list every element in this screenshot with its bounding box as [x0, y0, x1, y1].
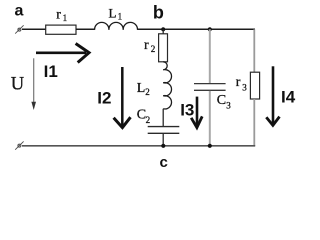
svg-text:I4: I4: [281, 88, 296, 107]
capacitor C2: [148, 127, 180, 134]
resistor r2: [159, 34, 168, 62]
wire node b down to r2: [162, 29, 164, 34]
svg-text:r: r: [144, 38, 149, 53]
junction dot bottom at C3 branch: [208, 144, 212, 148]
svg-text:3: 3: [242, 83, 247, 93]
right vertical wire (bottom): [253, 99, 255, 146]
inductor L1: [95, 22, 138, 30]
svg-text:b: b: [153, 3, 164, 23]
svg-text:I1: I1: [44, 62, 58, 81]
current arrow I3: [191, 97, 202, 128]
current arrow I4: [266, 66, 279, 125]
svg-text:2: 2: [145, 87, 150, 97]
voltage arrow U: [33, 58, 35, 103]
wire L2 to C2: [162, 109, 164, 126]
current arrow I1: [36, 44, 89, 63]
terminal bottom-left: [15, 141, 23, 149]
svg-text:U: U: [11, 75, 24, 95]
node b junction dot: [161, 27, 165, 31]
current arrow I2: [114, 67, 131, 128]
node c junction dot: [161, 144, 165, 148]
resistor r1: [46, 25, 76, 34]
svg-text:2: 2: [146, 115, 151, 125]
wire C2 to bottom: [162, 134, 164, 146]
svg-text:C: C: [217, 93, 226, 108]
svg-text:1: 1: [63, 13, 68, 23]
wire r1 to L1: [76, 28, 95, 30]
svg-text:2: 2: [151, 44, 156, 54]
right vertical wire (top): [253, 29, 255, 72]
svg-text:r: r: [56, 7, 61, 22]
inductor L2: [163, 62, 171, 109]
svg-text:c: c: [160, 154, 168, 171]
C3 branch top wire: [209, 29, 211, 83]
C3 branch bottom wire: [209, 91, 211, 146]
svg-text:I2: I2: [97, 88, 111, 107]
svg-text:L: L: [137, 81, 146, 96]
svg-text:1: 1: [118, 12, 123, 22]
svg-text:L: L: [109, 5, 117, 20]
junction dot top at C3 branch: [208, 27, 212, 31]
capacitor C3: [194, 84, 226, 91]
bottom wire: [22, 145, 255, 147]
wire terminal-a to r1: [22, 28, 46, 30]
wire L1 to top-right corner: [138, 28, 256, 30]
svg-text:r: r: [236, 75, 241, 90]
svg-text:I3: I3: [180, 101, 194, 120]
terminal top-left (input a): [15, 25, 23, 33]
resistor r3: [250, 72, 259, 99]
svg-text:a: a: [15, 3, 24, 20]
svg-text:3: 3: [226, 100, 231, 110]
